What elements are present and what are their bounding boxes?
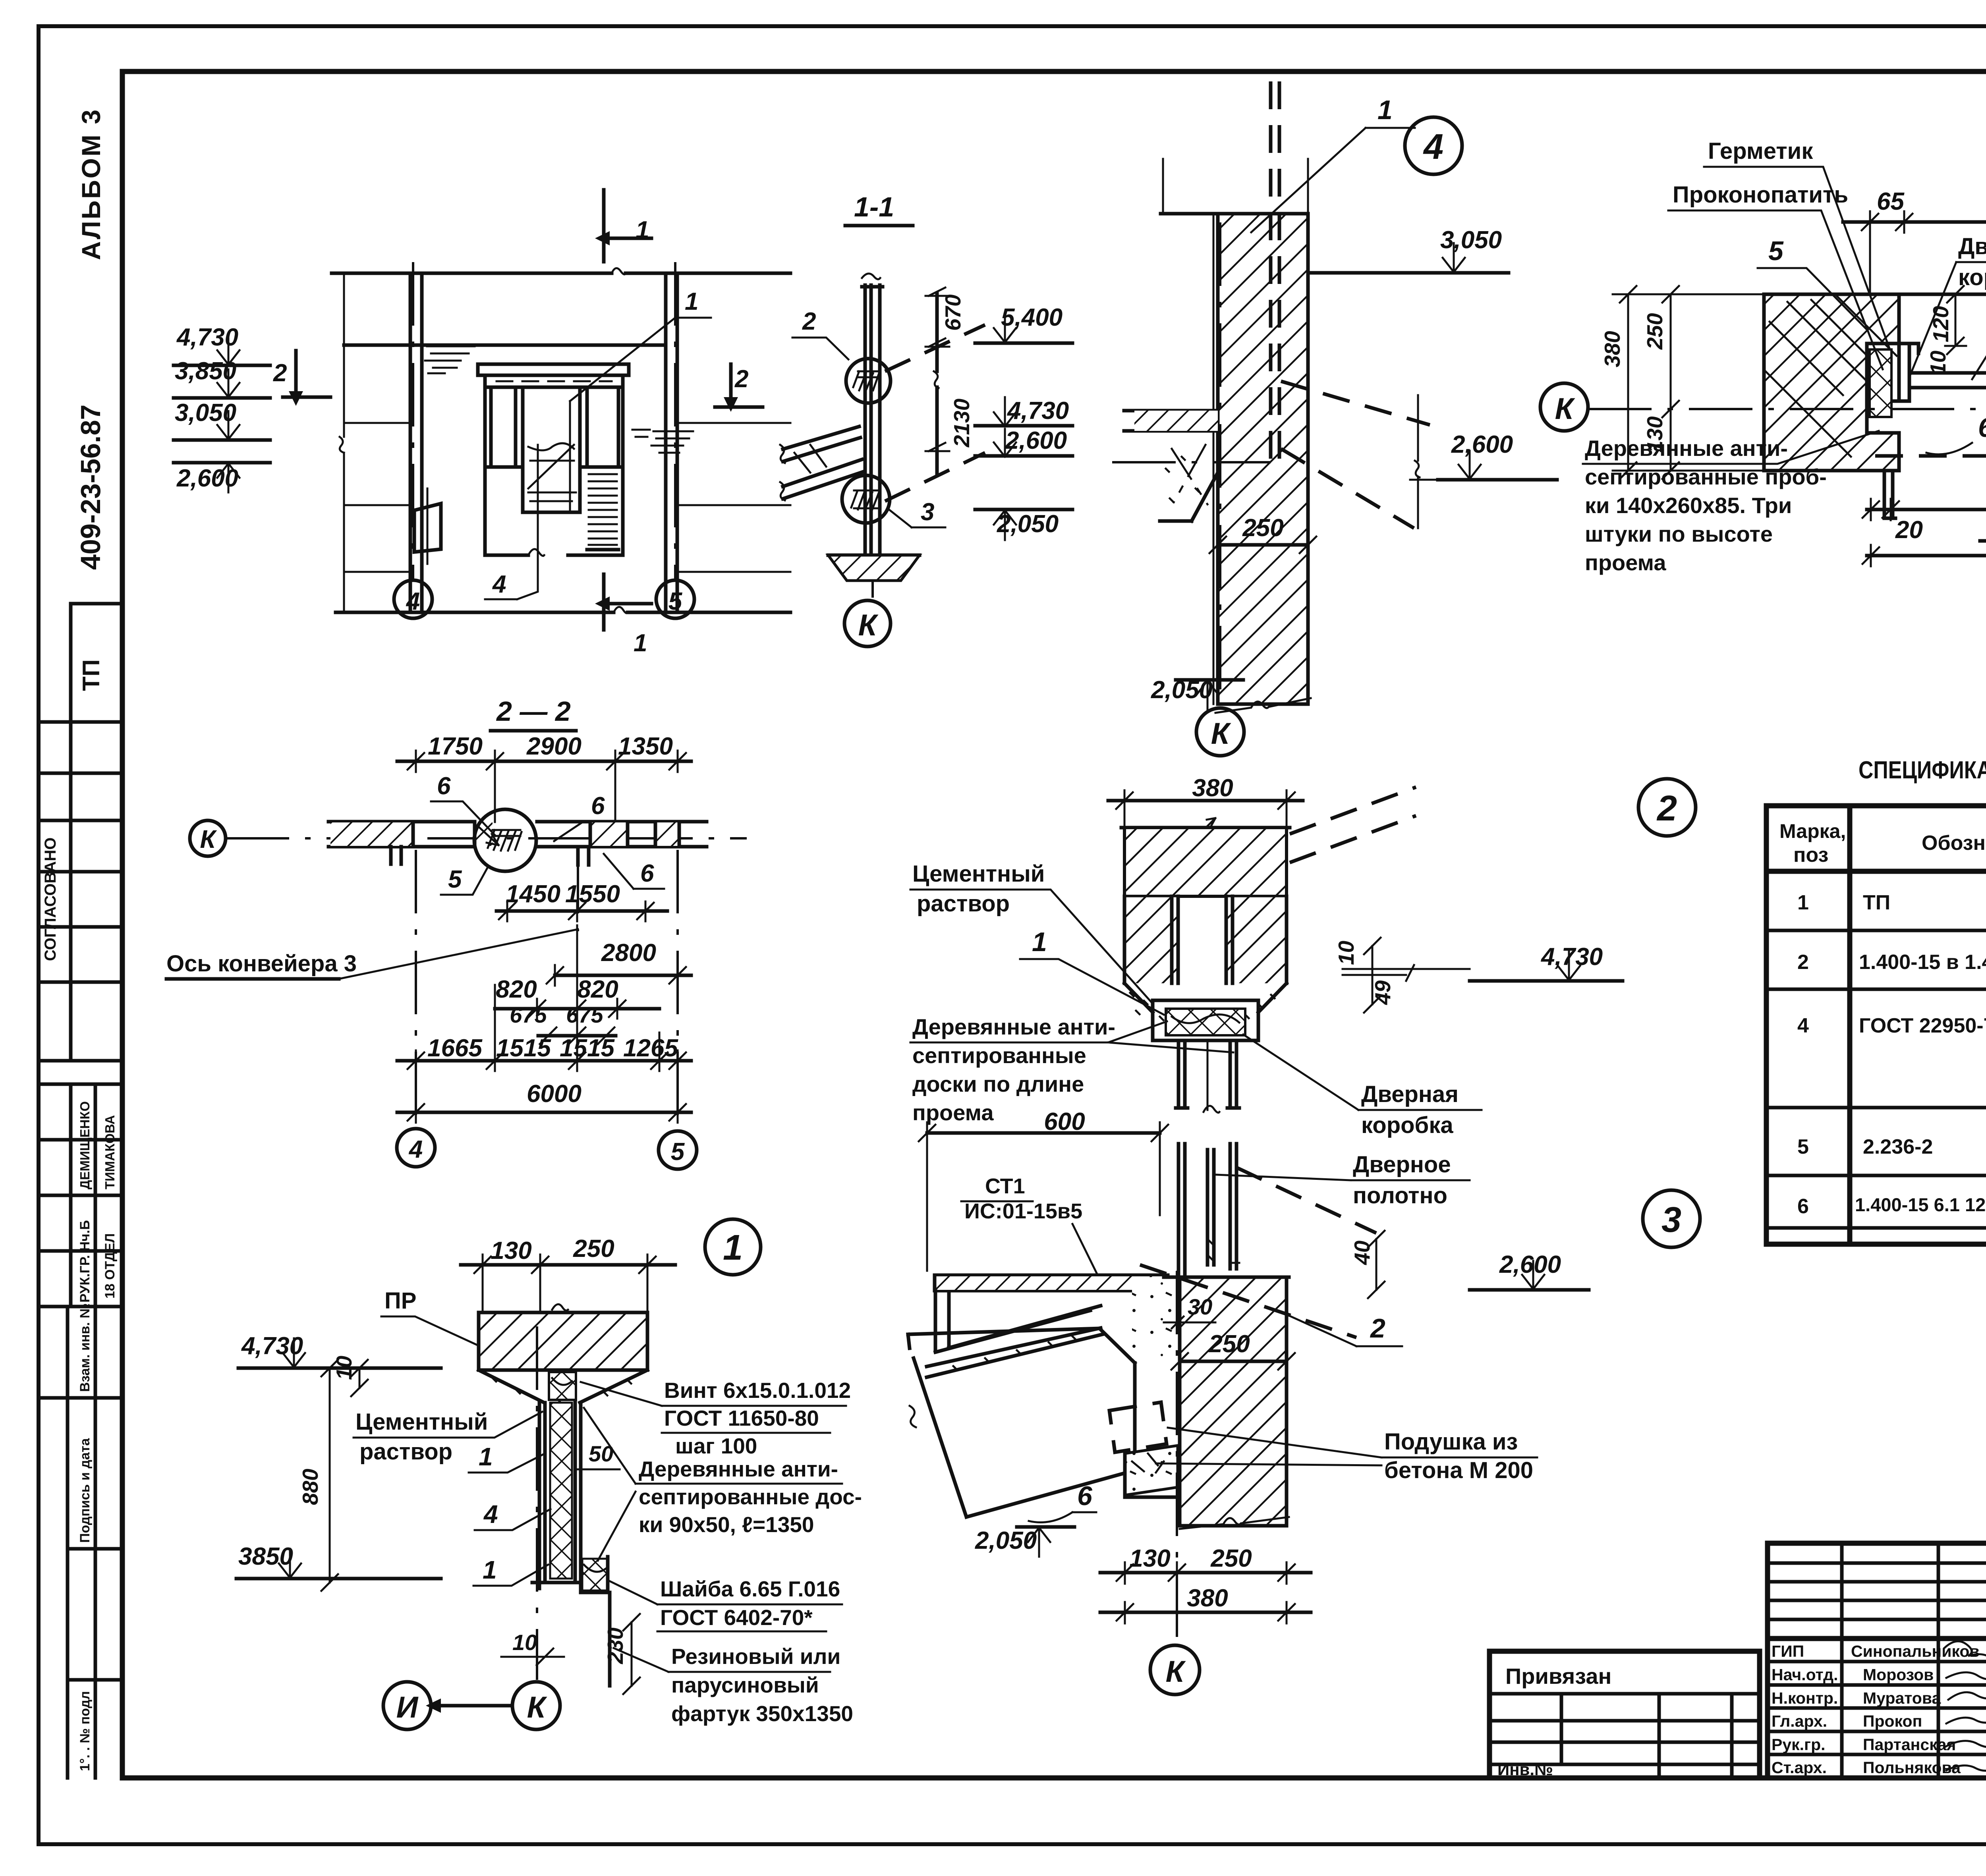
svg-text:120: 120	[1928, 306, 1953, 342]
arrow inside circle	[479, 827, 498, 845]
stamp dividers	[1768, 1543, 1986, 1778]
svg-text:Рук.гр.: Рук.гр.	[1772, 1735, 1826, 1754]
TITLE BLOCK bottom right	[1489, 1543, 1986, 1779]
booth floor line	[485, 554, 623, 557]
slab taper	[479, 1370, 647, 1403]
top edge line	[1161, 212, 1308, 216]
door leaf	[1909, 373, 1986, 388]
svg-text:Нач.отд.: Нач.отд.	[1772, 1666, 1838, 1684]
svg-text:коробка: коробка	[1958, 264, 1986, 290]
pad speckled	[1125, 1446, 1178, 1495]
dashed leaders	[1281, 381, 1430, 528]
elevation top edge line	[332, 272, 790, 275]
svg-text:СОГЛАСОВАНО: СОГЛАСОВАНО	[42, 838, 59, 961]
svg-text:1: 1	[1797, 891, 1809, 914]
svg-text:СТ1: СТ1	[985, 1174, 1025, 1198]
extension verticals above	[1163, 159, 1308, 214]
strip vertical lines	[39, 720, 122, 724]
svg-text:1.400-15 в 1.420-02: 1.400-15 в 1.420-02	[1859, 951, 1986, 974]
angle profile	[935, 1291, 1101, 1352]
svg-text:Взам. инв. №: Взам. инв. №	[77, 1303, 93, 1392]
svg-text:10: 10	[1334, 940, 1358, 965]
svg-text:10: 10	[1926, 350, 1950, 375]
svg-text:Проконопатить: Проконопатить	[1673, 182, 1848, 208]
svg-text:Привязан: Привязан	[1505, 1664, 1611, 1689]
svg-text:5: 5	[671, 1138, 685, 1166]
svg-text:Дверная: Дверная	[1361, 1081, 1459, 1107]
svg-text:820: 820	[496, 976, 537, 1003]
wall hatched block	[1764, 294, 1899, 471]
svg-text:65: 65	[1877, 188, 1905, 215]
K circle (section 1-1)	[844, 600, 891, 647]
bottom break	[1215, 698, 1311, 713]
svg-text:230: 230	[603, 1627, 628, 1664]
svg-text:5: 5	[668, 588, 683, 615]
svg-text:409-23-56.87: 409-23-56.87	[75, 405, 106, 570]
wall joints left	[344, 423, 410, 572]
svg-text:3,850: 3,850	[175, 357, 236, 385]
joint circle in plan	[474, 809, 536, 871]
column right pair	[666, 273, 677, 612]
svg-text:Винт 6х15.0.1.012: Винт 6х15.0.1.012	[664, 1378, 851, 1403]
wood plugs text block	[1583, 431, 1879, 575]
svg-text:1: 1	[723, 1228, 743, 1268]
svg-text:проема: проема	[1585, 550, 1666, 575]
svg-text:ки 90х50, ℓ=1350: ки 90х50, ℓ=1350	[639, 1512, 814, 1537]
signatures squiggles	[1944, 1641, 1986, 1663]
callout circle 1	[705, 1219, 761, 1275]
axis line 4	[412, 262, 414, 580]
svg-text:5,400: 5,400	[1001, 304, 1063, 331]
svg-text:4: 4	[406, 588, 420, 615]
bottom wall face	[1764, 469, 1884, 473]
ceiling joint line	[344, 344, 666, 347]
svg-text:Обозначение: Обозначение	[1922, 832, 1986, 855]
svg-text:раствор: раствор	[359, 1439, 452, 1465]
svg-text:675: 675	[566, 1002, 603, 1027]
svg-text:септированные дос-: септированные дос-	[639, 1484, 862, 1509]
svg-text:3: 3	[921, 498, 934, 526]
axis circle 4 plan	[397, 1129, 435, 1167]
hatched column	[1218, 214, 1308, 704]
svg-text:К: К	[1166, 1655, 1186, 1689]
svg-text:ГОСТ 6402-70*: ГОСТ 6402-70*	[660, 1605, 813, 1630]
svg-text:18 ОТДЕЛ: 18 ОТДЕЛ	[102, 1233, 118, 1299]
svg-text:1265: 1265	[623, 1035, 678, 1062]
svg-text:Подпись и дата: Подпись и дата	[77, 1438, 93, 1543]
svg-text:полотно: полотно	[1353, 1183, 1447, 1208]
svg-text:4: 4	[483, 1500, 498, 1529]
slab	[479, 1312, 647, 1370]
svg-text:4,730: 4,730	[1007, 397, 1069, 425]
svg-text:2: 2	[802, 308, 816, 335]
svg-text:3,050: 3,050	[175, 399, 236, 427]
svg-text:6: 6	[1797, 1195, 1809, 1218]
K axis circle	[190, 820, 226, 856]
elevation bottom floor line	[336, 611, 790, 614]
svg-text:1665: 1665	[427, 1035, 483, 1062]
svg-text:ПР: ПР	[384, 1288, 416, 1314]
top break	[862, 274, 880, 279]
svg-text:130: 130	[491, 1237, 531, 1264]
svg-text:1515: 1515	[496, 1035, 551, 1062]
svg-text:Партанская: Партанская	[1863, 1735, 1956, 1754]
svg-text:К: К	[1211, 717, 1232, 751]
plug in jamb	[1870, 349, 1891, 417]
stamp left small rows	[1768, 1543, 1986, 1778]
partition posts	[862, 285, 883, 555]
svg-text:250: 250	[1642, 313, 1667, 350]
svg-text:10: 10	[512, 1630, 537, 1655]
svg-text:штуки по высоте: штуки по высоте	[1585, 521, 1773, 546]
svg-text:Польнякова: Польнякова	[1863, 1758, 1961, 1777]
svg-text:РУК.ГР. Нч.Б: РУК.ГР. Нч.Б	[77, 1220, 93, 1303]
svg-text:1: 1	[634, 629, 647, 657]
svg-text:6: 6	[591, 792, 605, 820]
svg-text:Муратова: Муратова	[1863, 1689, 1942, 1707]
svg-text:670: 670	[941, 294, 965, 331]
roof slab band	[935, 1275, 1168, 1291]
svg-text:ИС:01-15в5: ИС:01-15в5	[964, 1199, 1082, 1223]
svg-text:2.236-2: 2.236-2	[1863, 1135, 1933, 1158]
K circle detail4	[1196, 708, 1244, 756]
svg-text:675: 675	[510, 1002, 547, 1027]
svg-text:Инв.№: Инв.№	[1497, 1760, 1553, 1779]
svg-text:2: 2	[1797, 951, 1809, 974]
svg-text:Цементный: Цементный	[355, 1409, 488, 1435]
svg-text:5: 5	[1768, 236, 1784, 266]
svg-text:Шайба 6.65 Г.016: Шайба 6.65 Г.016	[660, 1577, 840, 1601]
hidden dashed pair	[1271, 81, 1279, 462]
svg-text:К: К	[1555, 392, 1576, 426]
TP cell	[71, 604, 122, 722]
column hatched d3	[1180, 1277, 1287, 1526]
svg-text:СПЕЦИФИКАЦИЯ ЭЛЕМЕНТОВ ЗАПОЛ: СПЕЦИФИКАЦИЯ ЭЛЕМЕНТОВ ЗАПОЛНЕНИЯ ПЕРЕГО…	[1858, 757, 1986, 784]
bottom dims d3	[1100, 1571, 1311, 1575]
svg-text:ТП: ТП	[1863, 891, 1890, 914]
svg-text:фартук 350х1350: фартук 350х1350	[671, 1701, 853, 1726]
svg-text:Морозов: Морозов	[1863, 1666, 1934, 1684]
svg-text:Деревянные анти-: Деревянные анти-	[639, 1457, 838, 1481]
hidden dashed long	[1875, 454, 1986, 458]
svg-text:2900: 2900	[526, 733, 582, 760]
svg-text:6000: 6000	[527, 1080, 582, 1108]
svg-text:И: И	[396, 1691, 419, 1724]
head box	[1153, 1000, 1258, 1040]
svg-text:4: 4	[1797, 1014, 1809, 1037]
svg-text:6: 6	[1077, 1481, 1093, 1511]
svg-text:1: 1	[483, 1556, 497, 1584]
jamb frame	[1867, 344, 1918, 433]
svg-text:ГОСТ 22950-78: ГОСТ 22950-78	[1859, 1014, 1986, 1037]
svg-text:1: 1	[1377, 95, 1393, 125]
joint circle detail 2	[846, 359, 891, 403]
svg-text:1515: 1515	[560, 1035, 615, 1062]
svg-text:2800: 2800	[601, 939, 656, 967]
wall top line	[1121, 826, 1290, 830]
svg-text:Ст.арх.: Ст.арх.	[1772, 1758, 1827, 1777]
svg-text:250: 250	[1210, 1545, 1252, 1572]
svg-text:1350: 1350	[618, 733, 673, 760]
axis d1	[536, 1326, 538, 1680]
svg-text:Деревянные анти-: Деревянные анти-	[1585, 436, 1788, 461]
svg-text:4: 4	[408, 1136, 423, 1163]
svg-text:ки 140х260х85. Три: ки 140х260х85. Три	[1585, 493, 1792, 518]
svg-text:2: 2	[273, 359, 287, 387]
extension axis verticals	[416, 850, 678, 1131]
svg-text:6: 6	[640, 860, 654, 887]
svg-text:поз: поз	[1793, 843, 1828, 867]
svg-text:2,600: 2,600	[1499, 1251, 1561, 1278]
jambs below	[1176, 1040, 1239, 1108]
concrete speckle zone	[1132, 1277, 1178, 1358]
svg-text:1.400-15 6.1 120-17: 1.400-15 6.1 120-17	[1855, 1194, 1986, 1215]
circles I K	[383, 1682, 431, 1729]
LEFT ATTRIBUTE STRIP	[39, 108, 122, 1778]
glazing hatch strokes in center pane	[528, 443, 576, 501]
bottom break of column	[1180, 1517, 1289, 1529]
svg-text:проема: проема	[912, 1100, 994, 1125]
svg-text:6: 6	[1978, 413, 1986, 443]
svg-text:Синопальников: Синопальников	[1851, 1642, 1980, 1660]
svg-text:К: К	[527, 1691, 548, 1724]
channel with insulation	[539, 1403, 581, 1583]
svg-text:1750: 1750	[428, 733, 483, 760]
svg-text:820: 820	[577, 976, 618, 1003]
wall joints right	[677, 423, 790, 572]
booth cap slab	[478, 364, 629, 375]
top wall face line	[1764, 293, 1986, 296]
apron line	[608, 1592, 612, 1686]
svg-text:ТИМАКОВА: ТИМАКОВА	[102, 1115, 117, 1189]
svg-text:880: 880	[298, 1469, 323, 1505]
callout circle 3	[1643, 1190, 1700, 1247]
svg-text:5: 5	[1797, 1135, 1809, 1158]
svg-text:раствор: раствор	[917, 891, 1010, 917]
signature block	[39, 1084, 122, 1307]
svg-text:3,050: 3,050	[1440, 226, 1502, 254]
svg-text:2,600: 2,600	[1451, 431, 1513, 458]
floor hatch strip left	[1124, 411, 1218, 431]
axis to K	[1219, 222, 1221, 705]
dashed leaders to levels	[885, 325, 985, 501]
extension verticals from dim to wall	[495, 772, 615, 822]
svg-text:септированные проб-: септированные проб-	[1585, 464, 1827, 489]
svg-text:4: 4	[1423, 127, 1443, 167]
axis circle 5 plan	[659, 1131, 697, 1169]
svg-text:ДЕМИЩЕНКО: ДЕМИЩЕНКО	[77, 1101, 92, 1189]
section mark 1 bottom	[604, 574, 651, 630]
svg-text:септированные: септированные	[912, 1043, 1086, 1068]
axis to K d3	[1176, 1271, 1178, 1644]
top dim line	[397, 760, 691, 763]
svg-text:1°. . № подл: 1°. . № подл	[77, 1691, 93, 1771]
svg-text:30: 30	[1188, 1294, 1212, 1319]
svg-text:2: 2	[734, 365, 748, 393]
svg-text:Деревянные анти-: Деревянные анти-	[912, 1014, 1115, 1039]
svg-text:1: 1	[685, 288, 698, 315]
column left pair	[410, 273, 422, 612]
section mark 1 top	[604, 190, 651, 262]
svg-text:130: 130	[1129, 1545, 1170, 1572]
svg-text:Дверная: Дверная	[1958, 234, 1986, 259]
wall end ticks	[413, 822, 679, 847]
svg-text:4,730: 4,730	[1540, 943, 1603, 971]
svg-text:Резиновый или: Резиновый или	[671, 1644, 840, 1669]
svg-text:380: 380	[1192, 774, 1233, 802]
window sill	[485, 467, 623, 512]
svg-text:ТП: ТП	[78, 659, 104, 691]
SPECIFICATION TABLE	[1766, 757, 1986, 1244]
joint circle detail 3	[842, 475, 890, 523]
booth lintel	[485, 375, 623, 387]
upper hatched band	[1124, 828, 1287, 896]
svg-text:4: 4	[492, 571, 506, 598]
axis line K5	[1588, 408, 1986, 410]
svg-text:250: 250	[1208, 1330, 1250, 1358]
svg-text:парусиновый: парусиновый	[671, 1673, 819, 1697]
vzam inv cell	[39, 1307, 122, 1778]
svg-text:К: К	[858, 608, 879, 642]
vent flap quad	[414, 504, 441, 552]
vertical ref line w break	[1410, 395, 1438, 528]
wall band outlines	[328, 822, 707, 847]
svg-text:6: 6	[437, 772, 451, 800]
svg-text:Марка,: Марка,	[1779, 820, 1846, 842]
svg-text:ГИП: ГИП	[1772, 1642, 1804, 1660]
svg-text:Н.контр.: Н.контр.	[1772, 1689, 1838, 1707]
svg-text:250: 250	[1242, 514, 1283, 542]
svg-text:2130: 2130	[949, 398, 974, 448]
svg-text:Ось конвейера 3: Ось конвейера 3	[166, 951, 357, 977]
svg-text:3: 3	[1661, 1200, 1681, 1240]
svg-text:ГОСТ 11650-80: ГОСТ 11650-80	[664, 1406, 819, 1430]
axis to K	[871, 581, 874, 598]
taper	[1124, 983, 1287, 1012]
svg-text:1-1: 1-1	[854, 191, 894, 222]
middle band with channels	[1124, 896, 1178, 983]
svg-text:2: 2	[1656, 789, 1677, 828]
break squiggle top	[612, 268, 626, 274]
bottom shoe	[532, 1557, 608, 1592]
svg-text:АЛЬБОМ 3: АЛЬБОМ 3	[76, 108, 106, 260]
partition above	[1178, 1144, 1236, 1276]
axis circle 4	[394, 580, 432, 618]
svg-text:3850: 3850	[238, 1543, 293, 1570]
svg-text:Прокоп: Прокоп	[1863, 1712, 1922, 1730]
column left inner line	[1213, 214, 1215, 704]
svg-text:Цементный: Цементный	[912, 861, 1045, 887]
axis line 5	[674, 262, 676, 580]
svg-text:Дверное: Дверное	[1353, 1152, 1451, 1177]
soglasovano block	[39, 722, 122, 1061]
callout circle 2	[1638, 779, 1696, 836]
svg-text:2 — 2: 2 — 2	[496, 696, 571, 727]
threshold below	[1884, 471, 1895, 518]
wall streak hatch small	[632, 430, 650, 437]
wall hatch segments	[330, 822, 413, 846]
svg-text:1550: 1550	[565, 880, 620, 908]
svg-text:20: 20	[1895, 516, 1923, 544]
top break arrow	[1200, 818, 1215, 834]
top dims	[461, 1263, 675, 1267]
svg-text:2: 2	[1370, 1313, 1385, 1343]
svg-text:Гл.арх.: Гл.арх.	[1772, 1712, 1827, 1730]
ladder louver right	[587, 467, 618, 550]
gallery outline	[908, 1328, 1135, 1517]
dash-dot through floor	[1112, 461, 1271, 463]
svg-text:шаг 100: шаг 100	[675, 1434, 757, 1458]
svg-text:2,600: 2,600	[1005, 427, 1067, 454]
privyazan table	[1489, 1651, 1760, 1778]
axis circle 5	[656, 580, 694, 618]
dims bottom row1	[1867, 508, 1986, 511]
wall dashed top-right leaders	[1290, 787, 1416, 863]
window mullions	[485, 375, 623, 555]
left wall edge	[343, 273, 345, 612]
corbel left	[1160, 431, 1218, 521]
inclined chord band	[927, 1328, 1103, 1377]
wall streak hatch right	[651, 431, 693, 453]
dashed pad box	[1109, 1402, 1167, 1452]
pier stubs below	[391, 847, 589, 865]
svg-text:5: 5	[448, 866, 462, 893]
svg-text:Подушка из: Подушка из	[1384, 1429, 1518, 1455]
dept block	[39, 1195, 122, 1307]
top plug	[549, 1372, 576, 1400]
callout circle 4	[1405, 117, 1462, 174]
pad bottom lines	[1125, 1453, 1180, 1497]
svg-text:1: 1	[1032, 927, 1047, 957]
svg-text:1: 1	[636, 216, 649, 244]
column top line	[1164, 1276, 1289, 1279]
svg-text:380: 380	[1187, 1585, 1228, 1612]
svg-text:250: 250	[573, 1235, 614, 1262]
svg-text:К: К	[200, 825, 217, 853]
main stamp outer	[1768, 1543, 1986, 1778]
svg-text:1: 1	[479, 1442, 493, 1471]
K circle detail5	[1540, 383, 1588, 431]
svg-text:доски по длине: доски по длине	[912, 1071, 1084, 1096]
svg-text:коробка: коробка	[1361, 1112, 1453, 1138]
svg-text:Герметик: Герметик	[1708, 138, 1813, 164]
K axis dash-dot	[226, 837, 747, 840]
svg-text:2,050: 2,050	[975, 1527, 1037, 1554]
gallery slab inclined lines	[783, 427, 863, 499]
dims bottom row2	[1867, 554, 1986, 558]
floor line and hatched wedge	[828, 554, 920, 557]
dim line vertical right	[935, 294, 939, 475]
svg-text:380: 380	[1600, 331, 1625, 367]
svg-text:бетона М 200: бетона М 200	[1384, 1457, 1533, 1483]
wall streak hatch left	[425, 346, 475, 373]
